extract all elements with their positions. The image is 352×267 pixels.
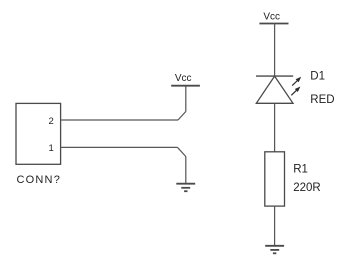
svg-text:D1: D1 — [310, 71, 325, 83]
wire pin2 vertical to Vcc — [185, 86, 187, 112]
LED D1 — [256, 76, 293, 103]
ground (middle) — [176, 184, 195, 192]
wire pin1 vertical to ground — [185, 157, 187, 184]
wire R1 to ground — [274, 206, 276, 246]
wire Vcc to LED — [274, 24, 276, 77]
resistor R1 — [265, 152, 285, 206]
LED arrow 2 — [291, 87, 300, 96]
svg-text:RED: RED — [310, 94, 334, 106]
connector CONN? — [16, 103, 61, 164]
wire pin1 horizontal — [61, 146, 178, 148]
wire pin2 diagonal — [178, 112, 186, 121]
svg-text:1: 1 — [49, 143, 54, 154]
wire LED to R1 — [274, 103, 276, 152]
svg-text:2: 2 — [49, 116, 54, 127]
svg-text:R1: R1 — [293, 164, 308, 176]
ground (right) — [265, 246, 284, 254]
wire pin1 diagonal — [178, 147, 186, 156]
Vcc symbol (left) — [171, 85, 200, 87]
wire pin2 horizontal — [61, 119, 178, 121]
svg-text:CONN?: CONN? — [17, 174, 62, 186]
LED arrow 1 — [292, 77, 301, 86]
svg-text:220R: 220R — [293, 182, 321, 194]
Vcc symbol (right) — [259, 23, 288, 25]
svg-text:Vcc: Vcc — [263, 11, 280, 22]
svg-text:Vcc: Vcc — [175, 73, 192, 84]
